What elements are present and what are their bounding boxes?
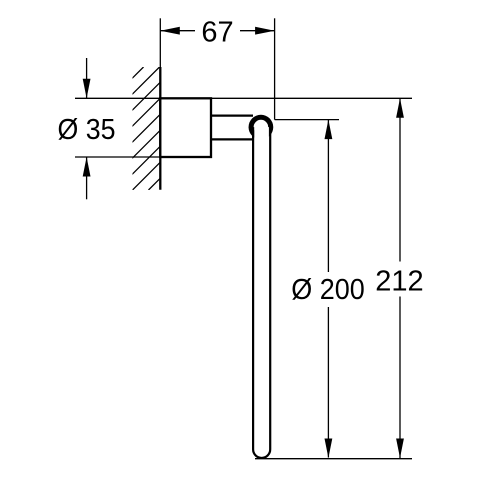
svg-text:67: 67 [201,17,233,49]
svg-text:Ø 35: Ø 35 [58,114,116,146]
svg-text:212: 212 [375,266,423,298]
svg-text:Ø 200: Ø 200 [291,274,365,306]
